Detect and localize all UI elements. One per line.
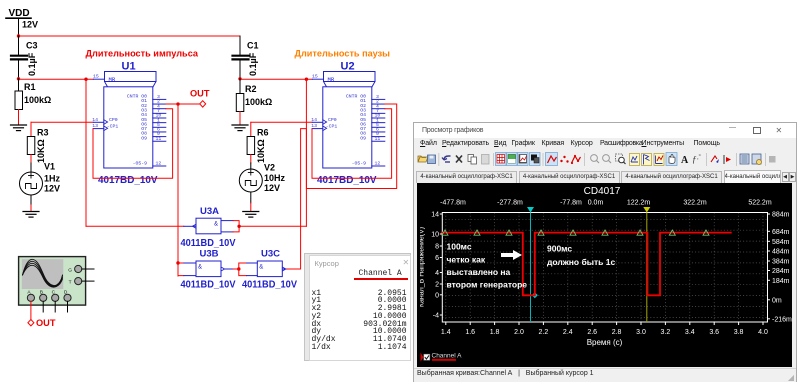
svg-text:10: 10 [431,232,439,239]
black plot panel [417,183,793,367]
svg-text:884m: 884m [772,212,790,219]
save [428,155,436,164]
ground (below V2) [243,212,259,218]
menu bar [414,138,796,150]
IC U1 4017BD_10V [93,61,156,169]
svg-text:15: 15 [312,74,318,80]
svg-text:10KΩ: 10KΩ [36,139,46,163]
node OUT (oscilloscope) [28,318,56,329]
svg-text:&: & [198,265,202,271]
svg-text:0.1µF: 0.1µF [248,52,258,76]
node junction C3/R1 [17,77,20,80]
wire U1 O2 feedback to CP1 [93,109,173,179]
NAND gate U3C 4011BD_10V [239,249,297,291]
paste (disabled) [482,154,490,164]
svg-text:11: 11 [375,136,381,142]
svg-text:-77.8m: -77.8m [560,200,582,207]
svg-text:Время (с): Время (с) [587,338,623,347]
yellow cursor [646,213,648,323]
svg-text:2: 2 [435,282,439,289]
waveform [441,233,732,296]
svg-text:15: 15 [93,74,99,80]
svg-text:522.2m: 522.2m [748,200,772,207]
svg-text:-4: -4 [433,313,439,320]
svg-text:2.6: 2.6 [587,329,597,336]
x labels [441,329,768,336]
svg-text:14: 14 [311,117,317,123]
svg-text:OUT: OUT [36,318,56,329]
resistor R1 [15,79,51,124]
svg-text:1.8: 1.8 [490,329,500,336]
svg-text:3.6: 3.6 [709,329,719,336]
ground (below R1) [11,125,27,131]
svg-text:R6: R6 [257,128,269,138]
data point triangles [442,230,709,235]
svg-text:4: 4 [435,270,439,277]
svg-text:CP0: CP0 [109,117,118,123]
svg-text:-277.8m: -277.8m [497,200,523,207]
svg-text:100kΩ: 100kΩ [24,95,51,105]
svg-text:A: A [681,155,689,166]
svg-text:,”: ,” [697,155,701,161]
svg-text:484m: 484m [772,249,790,256]
copy [468,154,474,161]
svg-text:384m: 384m [772,259,790,266]
node U3B output junction [237,267,240,270]
svg-text:2.2: 2.2 [539,329,549,336]
white arrow [501,250,522,260]
resistor R3 [27,122,48,172]
svg-text:C3: C3 [26,41,38,51]
wire R3 to U1 CP0 [31,121,93,123]
wire VDD rail red [17,34,240,37]
stop (disabled) [769,156,776,163]
capacitor C3 [11,36,38,79]
wire U2 O1 to U3C output side [286,104,397,269]
svg-text:CD4017: CD4017 [584,186,621,197]
resistor R2 [236,79,272,124]
svg-text:U3C: U3C [261,249,280,260]
annotations [447,242,616,290]
capacitor C1 [233,36,259,79]
zoom in (disabled) [591,154,598,161]
svg-text:1Hz: 1Hz [44,174,61,184]
export report [752,154,761,164]
undo [442,156,451,160]
svg-text:1.6: 1.6 [465,329,475,336]
svg-text:12: 12 [375,161,381,167]
svg-text:900мс: 900мс [547,244,572,254]
svg-text:C1: C1 [247,41,259,51]
U1 output pin leads and numbers [92,94,166,186]
grid toggle (selected) [496,152,507,165]
svg-text:0m: 0m [772,297,782,304]
NAND gate U3A 4011BD_10V (mirrored) [181,206,241,249]
curve tool (selected) [546,152,558,165]
wire V1 to ground [30,195,32,211]
svg-text:14: 14 [92,117,98,123]
svg-text:11: 11 [156,136,162,142]
overlay (selected) [530,152,541,165]
wire U2 O2 feedback to CP1 [312,109,392,179]
svg-text:684m: 684m [772,229,790,236]
right labels [772,212,792,324]
svg-text:O9: O9 [360,135,366,141]
svg-text:-477.8m: -477.8m [440,200,466,207]
svg-text:12V: 12V [44,184,60,194]
svg-text:2.4: 2.4 [563,329,573,336]
svg-text:100kΩ: 100kΩ [245,97,272,107]
svg-text:2.0: 2.0 [514,329,524,336]
svg-text:G: G [68,268,72,274]
svg-text:R1: R1 [24,82,36,92]
curve+dots [572,156,581,163]
zoom out (disabled) [603,154,610,161]
wire U1 O1 down to U3B [177,104,179,276]
svg-text:4011BD_10V: 4011BD_10V [181,280,236,291]
ground (below V1) [23,212,39,218]
svg-text:-CP1: -CP1 [326,123,338,129]
resistor R6 [247,122,268,169]
svg-text:-216m: -216m [772,316,792,323]
label: Длительность импульса [86,49,199,60]
hand (selected) [666,152,677,165]
NAND gate U3B 4011BD_10V [176,249,239,291]
ground (below R2) [232,125,248,131]
svg-text:184m: 184m [772,278,790,285]
axes toggle (selected) [518,152,529,165]
svg-text:6: 6 [435,255,439,262]
svg-text:3.0: 3.0 [636,329,646,336]
wire U1 MR net down to U3A [86,79,184,226]
wire R6 to U2 CP0 [251,121,312,123]
svg-text:&: & [259,265,263,271]
title bar [414,123,796,138]
U2 output pin leads and numbers [311,94,385,186]
svg-text:8: 8 [435,244,439,251]
svg-text:CP0: CP0 [328,117,337,123]
voltage source V2 [239,163,285,194]
svg-text:584m: 584m [772,239,790,246]
zoom x [630,153,640,165]
svg-text:4017BD_10V: 4017BD_10V [317,174,377,186]
marker tool [711,156,717,162]
svg-text:4011BD_10V: 4011BD_10V [242,280,297,291]
svg-text:3.2: 3.2 [661,329,671,336]
next marker [723,155,725,164]
svg-text:12V: 12V [264,183,280,193]
svg-text:Channel A: Channel A [432,353,463,360]
export excel [740,154,749,164]
legend [421,353,424,362]
node OUT wire from U1 pin 2 [166,89,210,108]
svg-text:U3B: U3B [200,249,219,260]
svg-text:U2: U2 [341,61,355,73]
status bar [414,368,796,383]
legend toggle (selected) [507,152,518,165]
IC U2 4017BD_10V [312,61,375,169]
svg-text:4017BD_10V: 4017BD_10V [98,174,158,186]
svg-text:0.1µF: 0.1µF [27,52,37,76]
svg-text:3.4: 3.4 [685,329,695,336]
tab bar [414,170,796,184]
dots tool [560,159,562,161]
svg-text:четко как: четко как [447,255,486,265]
svg-text:OUT: OUT [190,89,210,100]
frame [442,213,767,323]
svg-text:100мс: 100мс [447,242,472,252]
svg-text:10Hz: 10Hz [264,173,286,183]
svg-text:14: 14 [431,212,439,219]
svg-text:V1: V1 [44,162,55,172]
svg-text:Канал_B Напряжение(V): Канал_B Напряжение(V) [420,227,426,307]
svg-text:12: 12 [156,161,162,167]
svg-text:O9: O9 [141,135,147,141]
svg-text:-CP1: -CP1 [107,123,119,129]
svg-text:U1: U1 [122,61,136,73]
svg-text:4.0: 4.0 [758,329,768,336]
open [418,156,428,162]
svg-text:122.2m: 122.2m [627,200,651,207]
oscilloscope XSC1 icon [19,257,94,306]
zoom y [642,153,652,165]
delete X [456,155,462,162]
svg-text:284m: 284m [772,268,790,275]
svg-text:0: 0 [435,292,439,299]
svg-text:VDD: VDD [9,8,30,19]
svg-text:MR: MR [109,76,116,83]
svg-text:T: T [69,280,72,286]
cyan cursor [530,213,532,323]
svg-text:U3A: U3A [200,206,219,217]
label: Длительность паузы [295,49,391,60]
svg-text:MR: MR [328,76,335,83]
svg-text:&: & [214,222,218,228]
left labels [431,212,439,320]
svg-text:Длительность импульса: Длительность импульса [86,49,199,60]
zoom xy [654,153,664,165]
svg-text:R2: R2 [245,84,257,94]
svg-text:V2: V2 [264,163,275,173]
wire oscilloscope probe leads [31,301,68,319]
svg-text:4011BD_10V: 4011BD_10V [181,238,236,249]
voltage source V1 [20,162,61,196]
svg-text:10KΩ: 10KΩ [256,139,266,163]
svg-text:3.8: 3.8 [734,329,744,336]
wire U2 MR net down to U3A output side [239,79,306,226]
svg-text:втором генераторе: втором генераторе [447,280,528,290]
svg-text:Длительность паузы: Длительность паузы [295,49,391,60]
svg-text:-O5-9: -O5-9 [133,161,148,167]
toolbar [414,150,796,170]
wire to U1 MR [19,78,94,81]
node junction C1/R2 [238,77,312,81]
svg-text:322.2m: 322.2m [683,200,707,207]
svg-text:выставлено на: выставлено на [447,267,511,277]
zoom area [616,154,623,161]
svg-text:2.8: 2.8 [612,329,622,336]
power symbol VDD [6,8,38,36]
svg-text:-O5-9: -O5-9 [352,161,367,167]
svg-text:должно быть 1с: должно быть 1с [547,257,615,267]
svg-text:1.4: 1.4 [441,329,451,336]
svg-text:0.0m: 0.0m [588,200,604,207]
wire V2 to ground [250,192,252,211]
svg-text:R3: R3 [37,128,49,138]
grid [442,213,767,323]
svg-text:12V: 12V [22,20,38,30]
